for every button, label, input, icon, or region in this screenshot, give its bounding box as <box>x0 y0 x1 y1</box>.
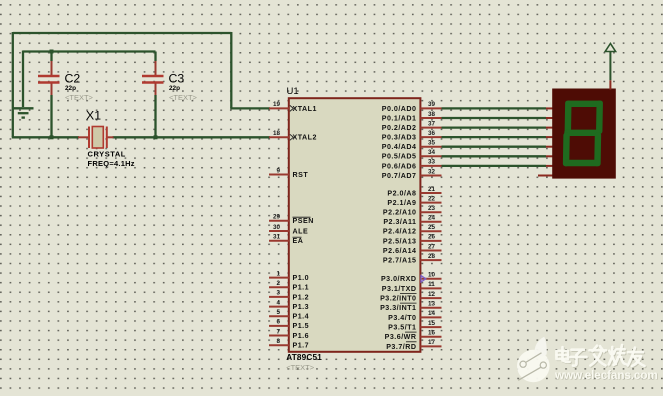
svg-text:RST: RST <box>293 171 309 179</box>
svg-text:P2.0/A8: P2.0/A8 <box>387 189 416 197</box>
svg-text:34: 34 <box>428 149 436 156</box>
svg-text:32: 32 <box>428 168 436 175</box>
svg-text:<TEXT>: <TEXT> <box>286 363 315 372</box>
svg-text:P0.3/AD3: P0.3/AD3 <box>382 134 417 142</box>
svg-text:P0.1/AD1: P0.1/AD1 <box>382 114 417 122</box>
svg-text:P1.0: P1.0 <box>293 274 310 282</box>
svg-text:13: 13 <box>428 301 436 308</box>
IC U1 AT89C51 body <box>289 98 421 352</box>
svg-text:39: 39 <box>428 101 436 108</box>
svg-text:P1.3: P1.3 <box>293 303 310 311</box>
U1 left pin numbers <box>273 101 281 345</box>
wire XTAL1 right vertical <box>230 32 232 108</box>
wire ground vertical <box>22 51 24 108</box>
power terminal arrow <box>605 44 615 81</box>
svg-text:P3.4/T0: P3.4/T0 <box>388 314 416 322</box>
svg-text:22: 22 <box>428 195 436 202</box>
svg-text:17: 17 <box>428 339 436 346</box>
svg-text:P2.2/A10: P2.2/A10 <box>383 209 417 217</box>
svg-text:X1: X1 <box>86 109 101 123</box>
display pin stubs <box>538 108 553 175</box>
svg-text:ALE: ALE <box>293 227 309 235</box>
svg-text:22p: 22p <box>65 85 76 92</box>
svg-text:1: 1 <box>276 270 280 277</box>
svg-text:P3.5/T1: P3.5/T1 <box>388 323 416 331</box>
svg-text:PSEN: PSEN <box>293 217 314 225</box>
svg-text:U1: U1 <box>287 86 299 97</box>
svg-text:15: 15 <box>428 320 436 327</box>
svg-text:P3.1/TXD: P3.1/TXD <box>382 285 417 293</box>
svg-text:P1.7: P1.7 <box>293 342 310 350</box>
svg-text:P1.4: P1.4 <box>293 313 310 321</box>
svg-text:10: 10 <box>428 272 436 279</box>
watermark chinese text 电子发烧友 <box>557 345 645 366</box>
svg-text:AT89C51: AT89C51 <box>286 353 322 362</box>
wire XTAL1 to pin 19 <box>230 107 270 109</box>
svg-text:14: 14 <box>428 310 436 317</box>
svg-text:31: 31 <box>273 234 281 241</box>
svg-text:30: 30 <box>273 224 281 231</box>
clock chevron XTAL2 <box>290 134 294 140</box>
svg-text:XTAL1: XTAL1 <box>293 105 317 113</box>
junction C2 bottom <box>50 135 54 139</box>
svg-text:4: 4 <box>276 299 280 306</box>
U1 left pin name overlines (PSEN, EA) <box>293 217 311 237</box>
wire crystal row right to XTAL2 pin 18 <box>113 136 271 138</box>
junction C3 bottom <box>154 135 158 139</box>
svg-text:25: 25 <box>428 224 436 231</box>
svg-text:P2.6/A14: P2.6/A14 <box>383 247 417 255</box>
svg-text:37: 37 <box>428 120 436 127</box>
svg-text:6: 6 <box>276 319 280 326</box>
svg-text:C2: C2 <box>65 71 81 85</box>
svg-text:5: 5 <box>276 309 280 316</box>
svg-text:7: 7 <box>276 328 280 335</box>
svg-text:35: 35 <box>428 140 436 147</box>
svg-text:P1.5: P1.5 <box>293 322 310 330</box>
capacitor C3 <box>142 52 164 139</box>
crystal X1 <box>78 127 114 149</box>
svg-text:XTAL2: XTAL2 <box>293 134 317 142</box>
7-segment display body <box>552 89 616 179</box>
svg-text:C3: C3 <box>169 71 185 85</box>
svg-text:2: 2 <box>276 280 280 287</box>
svg-text:P2.4/A12: P2.4/A12 <box>383 228 417 236</box>
7-segment digit 8 <box>563 101 603 167</box>
ground <box>13 108 34 117</box>
svg-text:P1.2: P1.2 <box>293 293 310 301</box>
svg-text:CRYSTAL: CRYSTAL <box>88 149 126 158</box>
wires P0.0-P0.6 to 7-seg display <box>442 108 547 165</box>
svg-text:11: 11 <box>428 281 435 288</box>
svg-text:P1.6: P1.6 <box>293 332 310 340</box>
svg-text:P2.1/A9: P2.1/A9 <box>387 199 416 207</box>
svg-text:EA: EA <box>293 237 304 245</box>
U1 right pin name overlines (INT0, INT1, WR, RD) <box>400 294 417 342</box>
svg-text:16: 16 <box>428 330 436 337</box>
wire XTAL1 top horizontal <box>13 32 231 34</box>
svg-text:<TEXT>: <TEXT> <box>169 93 198 102</box>
capacitor C2 <box>38 52 60 139</box>
svg-text:P0.5/AD5: P0.5/AD5 <box>382 153 417 161</box>
svg-text:26: 26 <box>428 234 436 241</box>
svg-text:27: 27 <box>428 243 436 250</box>
display power pin stub <box>609 80 611 89</box>
svg-text:33: 33 <box>428 159 436 166</box>
svg-text:www.elecfans.com: www.elecfans.com <box>554 368 658 382</box>
svg-text:38: 38 <box>428 111 436 118</box>
wire ground horizontal <box>23 50 156 52</box>
svg-text:22p: 22p <box>169 85 180 92</box>
watermark logo circle <box>517 337 550 383</box>
svg-text:18: 18 <box>273 130 281 137</box>
wire crystal row left <box>12 136 79 138</box>
svg-text:P3.3/INT1: P3.3/INT1 <box>380 304 416 312</box>
svg-text:<TEXT>: <TEXT> <box>65 93 94 102</box>
U1 right pin stubs <box>420 108 441 346</box>
svg-text:P2.7/A15: P2.7/A15 <box>383 257 417 265</box>
U1 right pin numbers <box>428 101 436 346</box>
svg-text:12: 12 <box>428 291 436 298</box>
svg-text:P1.1: P1.1 <box>293 284 310 292</box>
svg-text:P0.7/AD7: P0.7/AD7 <box>382 172 417 180</box>
svg-text:P3.2/INT0: P3.2/INT0 <box>380 295 416 303</box>
svg-text:8: 8 <box>276 338 280 345</box>
svg-text:P3.7/RD: P3.7/RD <box>386 343 416 351</box>
junction C2 top <box>50 50 54 54</box>
svg-text:P3.0/RXD: P3.0/RXD <box>381 275 417 283</box>
svg-text:P0.0/AD0: P0.0/AD0 <box>382 105 417 113</box>
svg-text:29: 29 <box>273 214 281 221</box>
svg-text:21: 21 <box>428 186 436 193</box>
svg-text:23: 23 <box>428 205 436 212</box>
U1 right pin names <box>380 105 416 351</box>
svg-text:P0.4/AD4: P0.4/AD4 <box>382 143 417 151</box>
svg-text:19: 19 <box>273 101 281 108</box>
svg-text:P3.6/WR: P3.6/WR <box>385 333 417 341</box>
svg-text:36: 36 <box>428 130 436 137</box>
svg-text:28: 28 <box>428 253 436 260</box>
svg-text:P2.3/A11: P2.3/A11 <box>383 218 416 226</box>
U1 left pin names <box>293 105 317 350</box>
U1 left pin stubs <box>269 108 289 345</box>
svg-text:9: 9 <box>276 167 280 174</box>
svg-text:P0.6/AD6: P0.6/AD6 <box>382 162 417 170</box>
probe marker at pin 10 <box>421 276 426 282</box>
clock chevron XTAL1 <box>290 105 294 111</box>
svg-text:FREQ=4.1Hz: FREQ=4.1Hz <box>88 159 135 168</box>
svg-text:P2.5/A13: P2.5/A13 <box>383 237 417 245</box>
svg-text:P0.2/AD2: P0.2/AD2 <box>382 124 417 132</box>
wire XTAL1 left vertical <box>12 32 14 137</box>
watermark chinese text shadow <box>557 346 645 367</box>
watermark logo circuit trace <box>518 353 546 381</box>
svg-text:3: 3 <box>276 290 280 297</box>
svg-text:24: 24 <box>428 215 436 222</box>
